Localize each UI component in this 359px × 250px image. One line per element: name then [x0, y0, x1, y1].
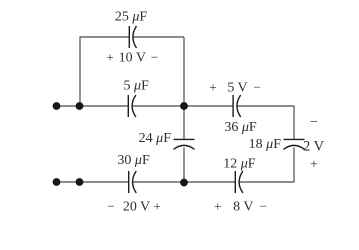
svg-text:−: − [107, 199, 114, 214]
capacitor C7 12uF (bottom wire right) [235, 171, 243, 193]
node junction bottom-left [76, 178, 84, 186]
svg-text:20 V: 20 V [123, 200, 150, 215]
label - (above 2V) [310, 115, 318, 130]
wire bottom horizontal segment b-C6 [57, 181, 129, 183]
wire bottom horizontal segment C6-C7 [133, 181, 236, 183]
svg-text:+: + [154, 199, 161, 214]
svg-text:−: − [260, 199, 267, 214]
svg-text:5 V: 5 V [227, 81, 247, 96]
wire right vertical upper (to C5 top plate) [293, 106, 295, 140]
node junction middle-center [180, 102, 188, 110]
wire center vertical (middle node to C4 top plate) [183, 106, 185, 139]
node terminal a (left middle outer dot) [53, 102, 61, 110]
svg-text:12 μF: 12 μF [223, 156, 256, 171]
label 25 uF [115, 10, 148, 25]
wire left vertical [79, 37, 81, 107]
svg-text:−: − [254, 80, 261, 95]
label 18 uF [249, 137, 282, 152]
node junction middle-left [76, 102, 84, 110]
svg-text:18 μF: 18 μF [249, 137, 282, 152]
label 2 V [303, 139, 325, 155]
svg-text:5 μF: 5 μF [124, 79, 150, 94]
wire right vertical lower (C5 bottom to bottom wire) [293, 148, 295, 183]
label - 20 V + [107, 199, 161, 215]
label + 8 V - [214, 199, 267, 215]
svg-text:10 V: 10 V [119, 51, 146, 66]
label + 10 V - [106, 50, 158, 66]
wire middle horizontal segment C2-C3 [132, 105, 233, 107]
capacitor C2 5uF (middle wire left) [128, 95, 136, 117]
wire top-left horizontal (to C1) [80, 36, 129, 38]
wire middle horizontal segment a-C2 [57, 105, 129, 107]
wire bottom horizontal segment C7-right [239, 181, 294, 183]
svg-text:36 μF: 36 μF [224, 120, 257, 135]
capacitor C6 30uF (bottom wire left) [129, 171, 137, 193]
svg-text:30 μF: 30 μF [117, 153, 150, 168]
label 12 uF [223, 156, 256, 171]
capacitor C4 24uF (center vertical branch) [174, 139, 195, 149]
node terminal b (left bottom outer dot) [53, 178, 61, 186]
capacitor C1 25uF (top wire) [129, 26, 136, 48]
wire center vertical upper (top to middle) [183, 37, 185, 106]
wire top-right horizontal (from C1) [133, 36, 184, 38]
label 30 uF [117, 153, 150, 168]
label + 5 V - [209, 80, 261, 96]
label 24 uF [139, 131, 172, 146]
svg-text:+: + [209, 80, 216, 95]
svg-text:8 V: 8 V [233, 200, 253, 215]
capacitor C5 18uF (right vertical branch) [284, 139, 305, 149]
svg-text:25 μF: 25 μF [115, 10, 148, 25]
label + (below 2V) [310, 157, 318, 172]
svg-text:24 μF: 24 μF [139, 131, 172, 146]
svg-text:2 V: 2 V [303, 139, 325, 155]
capacitor C3 36uF (middle wire right) [233, 95, 241, 117]
wire center vertical (C4 bottom to bottom wire) [183, 148, 185, 183]
svg-text:+: + [214, 199, 221, 214]
label 5 uF [124, 79, 150, 94]
node junction bottom-center [180, 179, 188, 187]
svg-text:+: + [106, 50, 113, 65]
svg-text:−: − [151, 50, 158, 65]
wire middle horizontal segment C3-right [237, 105, 294, 107]
svg-text:+: + [310, 157, 318, 172]
svg-text:−: − [310, 115, 318, 130]
label 36 uF [224, 120, 257, 135]
